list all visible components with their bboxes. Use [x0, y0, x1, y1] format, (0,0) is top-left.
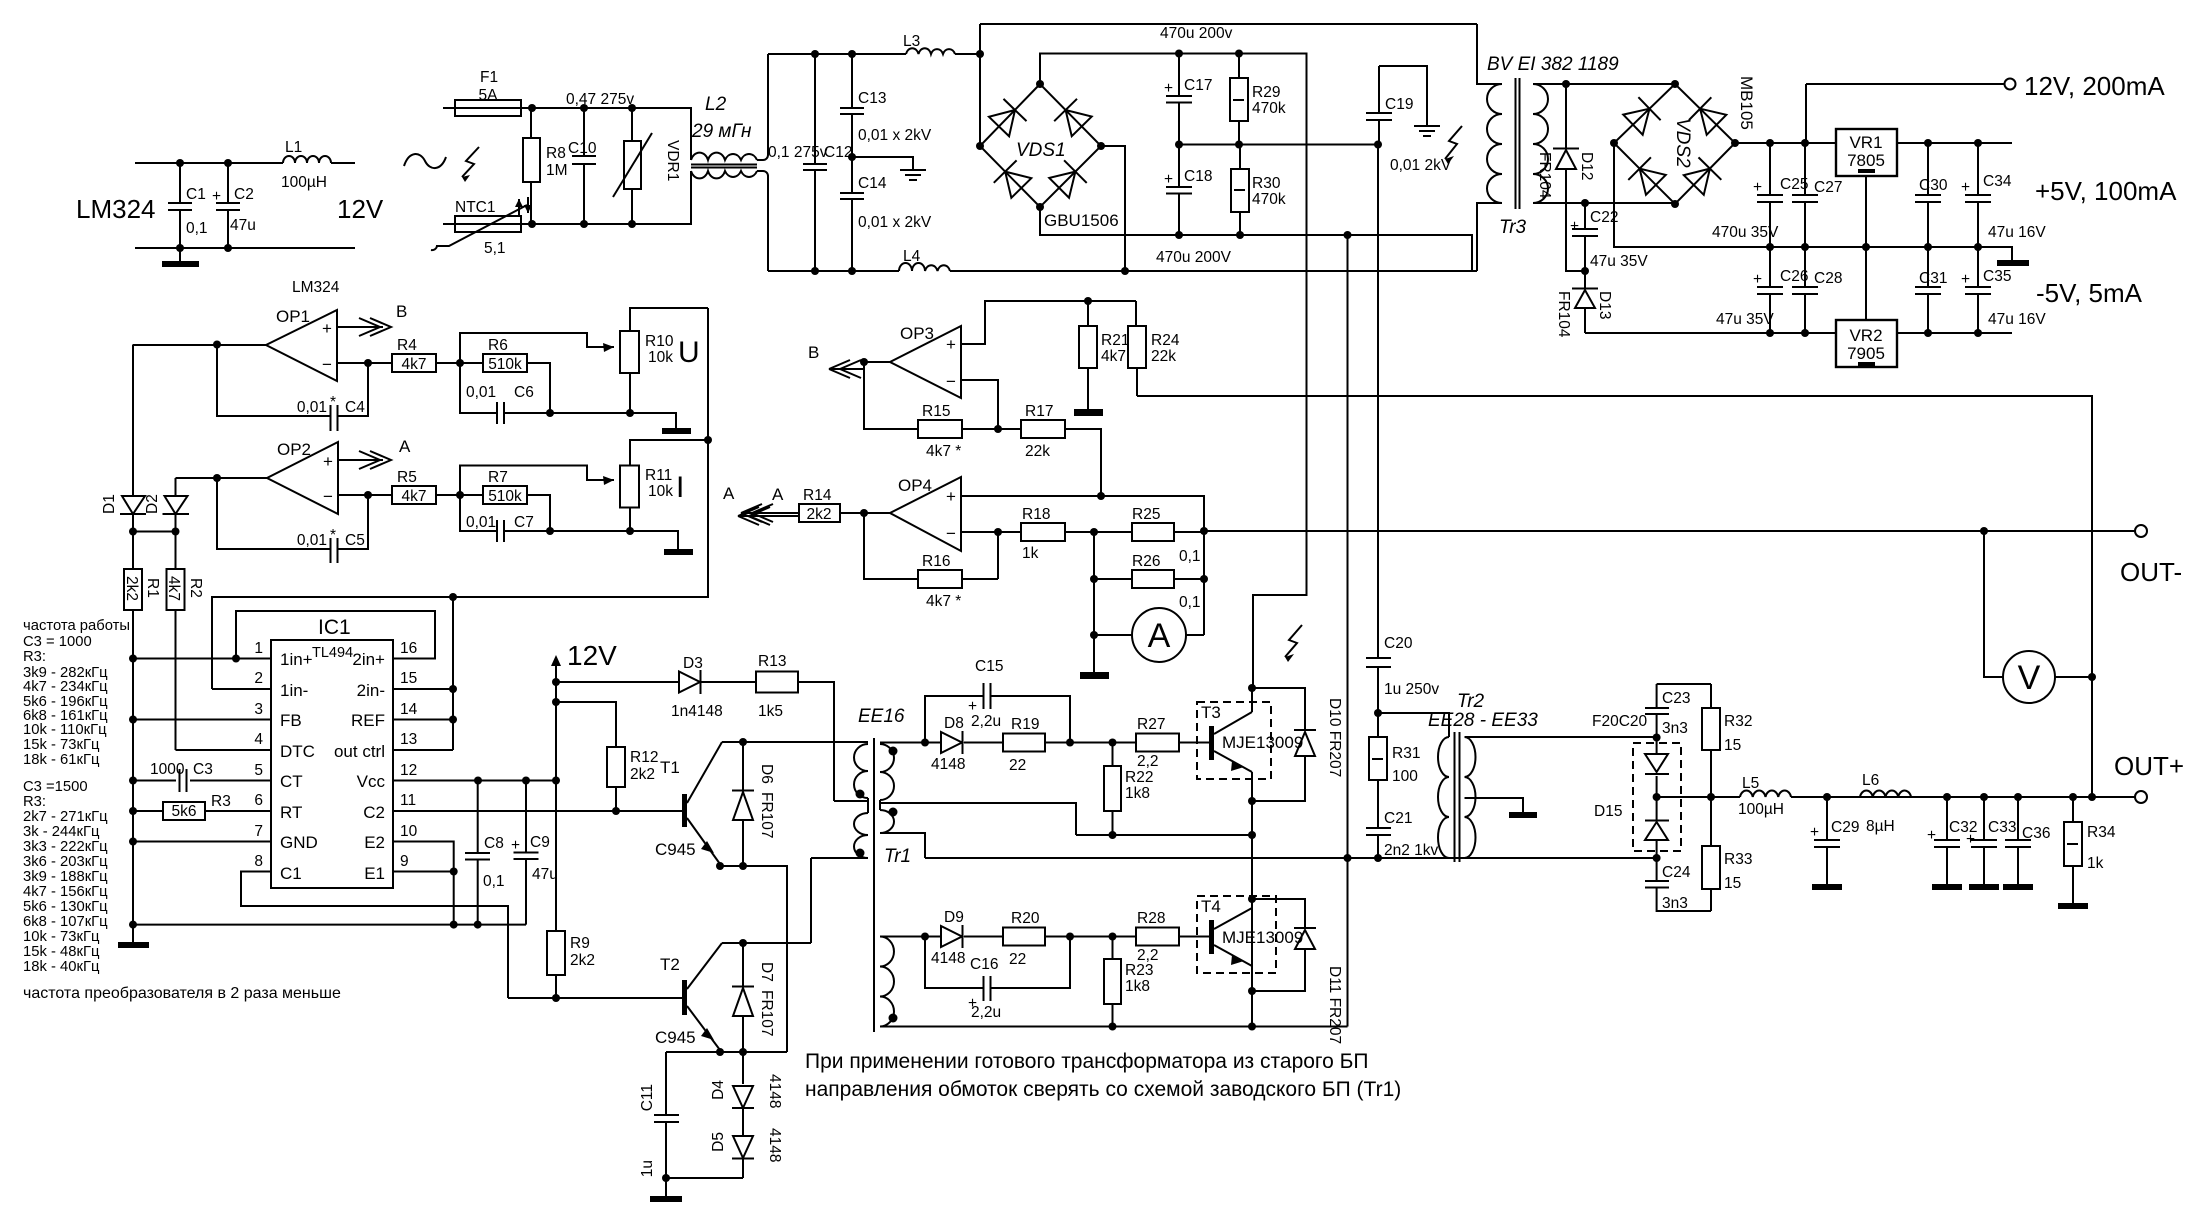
resistor R20 — [1003, 910, 1136, 968]
capacitor C14 — [840, 157, 932, 271]
wire OP3 +in — [961, 301, 1136, 344]
resistor R2 — [165, 532, 204, 751]
node — [811, 50, 819, 58]
svg-text:470u 200V: 470u 200V — [1156, 249, 1232, 266]
svg-text:C30: C30 — [1919, 177, 1948, 194]
wire pin3 FB — [133, 719, 271, 721]
wire OUT- rail — [1204, 530, 2135, 532]
svg-text:8µH: 8µH — [1866, 818, 1895, 835]
svg-text:100: 100 — [1392, 768, 1418, 785]
svg-text:T1: T1 — [660, 758, 680, 777]
svg-text:R21: R21 — [1101, 332, 1129, 349]
svg-text:C2: C2 — [363, 803, 385, 822]
svg-text:R3:: R3: — [23, 649, 46, 665]
svg-text:R19: R19 — [1011, 716, 1039, 733]
svg-text:C12: C12 — [824, 144, 852, 161]
capacitor C28 — [1792, 247, 1842, 333]
svg-text:C16: C16 — [970, 956, 998, 973]
svg-text:13: 13 — [400, 731, 417, 748]
wire E2 pin10 — [393, 842, 454, 925]
diode D10 — [1252, 688, 1343, 801]
svg-text:FR104: FR104 — [1536, 152, 1553, 199]
svg-text:+: + — [1164, 171, 1173, 188]
capacitor C22 — [1570, 203, 1648, 271]
svg-text:8: 8 — [254, 853, 263, 870]
voltmeter V — [1980, 527, 2092, 703]
wire T2 base row — [508, 997, 683, 999]
capacitor C17 — [1164, 54, 1212, 145]
capacitor C15 — [925, 658, 1070, 743]
svg-text:A: A — [399, 437, 411, 456]
svg-text:510k: 510k — [488, 488, 522, 505]
capacitor C20 — [1366, 635, 1439, 713]
svg-text:R31: R31 — [1392, 745, 1420, 762]
svg-text:+: + — [1961, 179, 1970, 196]
wire — [1377, 145, 1379, 659]
inductor L5 — [1738, 775, 1791, 818]
svg-text:14: 14 — [400, 701, 418, 718]
svg-text:LM324: LM324 — [292, 279, 340, 296]
svg-text:470k: 470k — [1252, 100, 1286, 117]
svg-text:+: + — [322, 319, 332, 338]
svg-text:FR104: FR104 — [1555, 291, 1572, 338]
svg-text:R6: R6 — [488, 337, 508, 354]
svg-text:47u 35V: 47u 35V — [1716, 311, 1774, 328]
capacitor C30 — [1915, 143, 1948, 247]
svg-text:4k7: 4k7 — [402, 488, 427, 505]
diode D4 — [710, 1052, 783, 1135]
transistor T4 — [1197, 896, 1303, 991]
svg-text:R9: R9 — [570, 935, 590, 952]
svg-text:−: − — [946, 372, 956, 391]
svg-text:18k - 40кГц: 18k - 40кГц — [23, 959, 100, 975]
wire bottom + ground — [550, 413, 676, 428]
svg-text:+: + — [946, 487, 956, 506]
svg-text:+: + — [212, 188, 221, 205]
svg-text:100µH: 100µH — [1738, 801, 1784, 818]
svg-text:22k: 22k — [1151, 348, 1176, 365]
svg-text:2in-: 2in- — [357, 681, 385, 700]
resistor R27 — [1136, 716, 1209, 770]
svg-text:R22: R22 — [1125, 769, 1153, 786]
svg-text:D11 FR207: D11 FR207 — [1326, 966, 1343, 1044]
resistor R15 — [918, 403, 1021, 460]
svg-text:Vcc: Vcc — [357, 772, 386, 791]
svg-text:GND: GND — [280, 833, 318, 852]
svg-text:−: − — [322, 355, 332, 374]
node — [176, 159, 184, 167]
capacitor C7 — [460, 495, 550, 542]
svg-text:−: − — [323, 487, 333, 506]
svg-text:R14: R14 — [803, 487, 832, 504]
svg-text:R10: R10 — [645, 333, 674, 350]
svg-text:C11: C11 — [639, 1084, 656, 1111]
wire output — [133, 344, 266, 346]
svg-text:47u 16V: 47u 16V — [1988, 311, 2046, 328]
thermistor NTC1 — [431, 199, 531, 257]
wire pin8 C1 loop — [241, 872, 508, 999]
svg-text:C34: C34 — [1983, 173, 2012, 190]
Tr1 left winding A — [854, 744, 868, 813]
svg-text:15: 15 — [1724, 737, 1741, 754]
Tr1 left winding B — [854, 813, 868, 858]
svg-text:*: * — [330, 394, 336, 411]
svg-text:L1: L1 — [285, 139, 302, 156]
svg-text:18k - 61кГц: 18k - 61кГц — [23, 752, 100, 768]
svg-text:4k7 *: 4k7 * — [926, 443, 961, 460]
resistor R18 — [1021, 506, 1132, 562]
potentiometer R11 — [620, 440, 708, 531]
svg-text:2k2: 2k2 — [807, 506, 832, 523]
svg-text:VDR1: VDR1 — [664, 140, 681, 181]
wire rail y271 — [768, 270, 1477, 272]
svg-text:12V: 12V — [337, 194, 384, 224]
svg-text:6: 6 — [254, 792, 263, 809]
svg-text:U: U — [678, 336, 700, 369]
svg-text:R27: R27 — [1137, 716, 1165, 733]
capacitor C33 — [1966, 797, 2016, 890]
diode D8 — [931, 715, 965, 773]
capacitor C36 — [2003, 797, 2050, 890]
capacitor C11 — [639, 1052, 679, 1178]
wire top rail y24 — [980, 24, 1477, 146]
svg-text:R17: R17 — [1025, 403, 1053, 420]
diode D7 — [732, 943, 775, 1052]
capacitor C34 — [1961, 143, 2046, 247]
12V arrow mid — [555, 659, 557, 682]
svg-text:12: 12 — [400, 762, 417, 779]
svg-text:4k7: 4k7 — [402, 356, 427, 373]
svg-text:470u 200v: 470u 200v — [1160, 25, 1233, 42]
svg-text:R4: R4 — [397, 337, 417, 354]
svg-text:C28: C28 — [1814, 270, 1842, 287]
transistor T3 — [1197, 688, 1303, 801]
svg-text:2,2u: 2,2u — [971, 713, 1001, 730]
svg-text:6k8 - 107кГц: 6k8 - 107кГц — [23, 914, 108, 930]
svg-text:TL494: TL494 — [312, 645, 353, 661]
svg-text:47u 35V: 47u 35V — [1590, 253, 1648, 270]
svg-text:0,1 275v: 0,1 275v — [768, 144, 828, 161]
svg-text:47u 16V: 47u 16V — [1988, 224, 2046, 241]
inductor L1 — [281, 139, 331, 191]
wire 12V bus — [555, 682, 557, 931]
svg-text:2,2u: 2,2u — [971, 1004, 1001, 1021]
wire aux rails — [1735, 142, 2012, 144]
resistor R17 — [1021, 403, 1101, 496]
svg-text:L6: L6 — [1862, 772, 1879, 789]
svg-text:9: 9 — [400, 853, 409, 870]
svg-text:1: 1 — [254, 640, 263, 657]
capacitor C9 — [511, 781, 558, 925]
svg-text:Tr3: Tr3 — [1499, 217, 1527, 238]
svg-text:R23: R23 — [1125, 962, 1153, 979]
svg-text:OUT+: OUT+ — [2114, 751, 2184, 781]
regulator VR2 7905 — [1836, 247, 1897, 367]
svg-text:VR1: VR1 — [1849, 133, 1882, 152]
wire secondary — [1533, 84, 1675, 204]
diode D6 — [732, 742, 775, 866]
svg-text:1k8: 1k8 — [1125, 978, 1150, 995]
svg-text:R26: R26 — [1132, 553, 1160, 570]
svg-text:L5: L5 — [1742, 775, 1759, 792]
svg-text:10k - 73кГц: 10k - 73кГц — [23, 929, 100, 945]
capacitor C2 — [212, 163, 256, 248]
svg-text:LM324: LM324 — [76, 194, 156, 224]
svg-text:C33: C33 — [1988, 819, 2016, 836]
capacitor C24 + resistor R33 loop — [1645, 858, 1711, 911]
svg-text:12V: 12V — [567, 640, 617, 671]
svg-text:4k7 *: 4k7 * — [926, 593, 961, 610]
capacitor C5 feedback — [217, 478, 368, 563]
svg-text:T3: T3 — [1201, 703, 1221, 722]
wire pot top I — [460, 466, 614, 496]
svg-text:4k7 - 234кГц: 4k7 - 234кГц — [23, 679, 108, 695]
svg-text:1in+: 1in+ — [280, 650, 313, 669]
svg-text:0,1: 0,1 — [186, 220, 208, 237]
svg-text:D10 FR207: D10 FR207 — [1326, 698, 1343, 777]
svg-text:3: 3 — [254, 701, 263, 718]
svg-text:2k2: 2k2 — [123, 576, 140, 601]
svg-text:OP4: OP4 — [898, 476, 932, 495]
terminal OUT- — [2135, 525, 2147, 537]
svg-text:3n3: 3n3 — [1662, 895, 1688, 912]
wire bridge outputs — [1040, 54, 1307, 689]
svg-text:R29: R29 — [1252, 84, 1280, 101]
svg-text:0,01 2kV: 0,01 2kV — [1390, 157, 1452, 174]
svg-text:частота работы: частота работы — [23, 618, 130, 634]
svg-text:1k: 1k — [1022, 545, 1039, 562]
wire — [135, 163, 355, 248]
svg-text:F20C20: F20C20 — [1592, 713, 1648, 730]
svg-text:C7: C7 — [514, 514, 534, 531]
svg-text:C3: C3 — [193, 761, 213, 778]
svg-text:NTC1: NTC1 — [455, 199, 495, 216]
svg-text:1k5: 1k5 — [758, 703, 783, 720]
svg-text:R33: R33 — [1724, 851, 1752, 868]
svg-text:1n4148: 1n4148 — [671, 703, 723, 720]
capacitor C6 — [460, 363, 550, 424]
wire T1 collector — [722, 741, 868, 743]
diode D11 — [1252, 899, 1343, 1044]
varistor VDR1 — [613, 108, 681, 224]
svg-text:GBU1506: GBU1506 — [1044, 211, 1119, 230]
wire rail y54 — [768, 53, 980, 55]
svg-text:BV EI 382 1189: BV EI 382 1189 — [1487, 54, 1619, 75]
svg-text:4k7 - 156кГц: 4k7 - 156кГц — [23, 884, 108, 900]
resistor R34 — [2058, 797, 2116, 909]
wire T2 emitter row — [666, 1051, 787, 1053]
svg-text:C4: C4 — [345, 399, 365, 416]
svg-text:D13: D13 — [1596, 291, 1613, 319]
transistor T1 — [655, 742, 722, 864]
svg-text:T2: T2 — [660, 955, 680, 974]
12V output — [1806, 84, 2004, 143]
capacitor C12 — [768, 54, 852, 271]
diode D1 — [101, 345, 146, 532]
svg-text:C23: C23 — [1662, 690, 1690, 707]
transformer Tr3 — [1487, 84, 1502, 203]
op-amp OP1 — [266, 307, 337, 381]
svg-text:EE16: EE16 — [858, 706, 905, 727]
diode — [988, 99, 1027, 138]
svg-text:5k6: 5k6 — [172, 803, 197, 820]
svg-text:D5: D5 — [710, 1132, 727, 1152]
svg-text:D15: D15 — [1594, 803, 1622, 820]
svg-text:C9: C9 — [530, 834, 550, 851]
Tr1 right winding sec2 — [880, 937, 894, 1027]
capacitor C16 — [925, 937, 1070, 1022]
svg-text:C35: C35 — [1983, 268, 2011, 285]
diode D12 — [1536, 84, 1595, 271]
resistor R8 — [523, 108, 568, 224]
svg-text:OP3: OP3 — [900, 324, 934, 343]
resistor R29 — [1230, 54, 1286, 145]
capacitor C18 — [1164, 145, 1212, 236]
svg-text:0,01 x 2kV: 0,01 x 2kV — [858, 214, 932, 231]
terminal OUT+ — [2135, 791, 2147, 803]
svg-text:R16: R16 — [922, 553, 950, 570]
lightning — [1445, 126, 1462, 159]
svg-text:−: − — [946, 524, 956, 543]
inductor L4 — [899, 248, 950, 271]
wire pins 15 14 13 bus — [393, 597, 453, 750]
resistor R12 — [556, 702, 658, 811]
svg-text:10: 10 — [400, 823, 418, 840]
resistor R1 — [123, 532, 161, 943]
svg-text:D7: D7 — [758, 962, 775, 982]
svg-text:R15: R15 — [922, 403, 950, 420]
wire midrail — [1179, 144, 1378, 146]
svg-text:*: * — [330, 527, 336, 544]
wire OP4 -in — [961, 531, 1021, 533]
ground — [852, 157, 926, 180]
svg-text:2k2: 2k2 — [630, 766, 655, 783]
svg-text:C3 = 1000: C3 = 1000 — [23, 634, 92, 650]
svg-text:C1: C1 — [280, 864, 302, 883]
wire center tap left — [834, 800, 868, 802]
svg-text:22: 22 — [1009, 951, 1026, 968]
resistor R16 — [864, 513, 998, 610]
svg-text:15k - 48кГц: 15k - 48кГц — [23, 944, 100, 960]
svg-text:5: 5 — [254, 762, 263, 779]
svg-text:-5V, 5mA: -5V, 5mA — [2036, 278, 2143, 308]
svg-text:R30: R30 — [1252, 175, 1281, 192]
svg-text:C2: C2 — [234, 186, 254, 203]
resistor R21 — [1079, 301, 1129, 409]
svg-text:R28: R28 — [1137, 910, 1165, 927]
capacitor C19 — [1366, 66, 1452, 174]
svg-text:DTC: DTC — [280, 742, 315, 761]
capacitor C27 — [1792, 143, 1842, 247]
wire R24 rail — [1137, 396, 2092, 797]
op-amp OP2 — [267, 440, 338, 514]
capacitor C32 — [1927, 797, 1977, 890]
svg-text:0,01 x 2kV: 0,01 x 2kV — [858, 127, 932, 144]
svg-text:C15: C15 — [975, 658, 1003, 675]
op-amp OP3 — [890, 324, 961, 398]
diode D13 — [1555, 271, 1613, 338]
svg-text:D9: D9 — [944, 909, 964, 926]
svg-text:R34: R34 — [2087, 824, 2116, 841]
svg-text:1000: 1000 — [150, 761, 185, 778]
svg-text:OP1: OP1 — [276, 307, 310, 326]
svg-text:FB: FB — [280, 711, 302, 730]
inductor L6 — [1860, 772, 1911, 835]
resistor R3 pin6 — [133, 793, 271, 820]
svg-text:4148: 4148 — [931, 950, 965, 967]
wire T2 collector — [722, 858, 811, 943]
svg-text:C13: C13 — [858, 90, 886, 107]
diode D9 — [931, 909, 965, 967]
regulator VR1 7805 — [1836, 129, 1897, 247]
resistor R28 — [1136, 910, 1209, 964]
svg-text:3n3: 3n3 — [1662, 720, 1688, 737]
svg-text:out ctrl: out ctrl — [334, 742, 385, 761]
wire — [531, 108, 691, 160]
svg-text:E1: E1 — [364, 864, 385, 883]
svg-text:+: + — [946, 335, 956, 354]
capacitor C8 — [465, 781, 505, 925]
wire output — [176, 477, 268, 479]
svg-text:+: + — [1570, 218, 1579, 235]
svg-text:D12: D12 — [1578, 152, 1595, 180]
svg-text:4148: 4148 — [766, 1074, 783, 1108]
node B out — [337, 326, 383, 328]
svg-text:V: V — [2018, 659, 2041, 697]
resistor R5 — [392, 469, 483, 505]
svg-text:I: I — [676, 471, 684, 504]
capacitor C26 — [1716, 247, 1808, 333]
svg-text:0,1: 0,1 — [483, 873, 505, 890]
resistor R22 — [1104, 743, 1153, 836]
svg-text:470k: 470k — [1252, 191, 1286, 208]
svg-text:4: 4 — [254, 731, 263, 748]
svg-text:D6: D6 — [758, 764, 775, 784]
AC symbol — [404, 154, 446, 168]
resistor R4 — [392, 337, 483, 373]
svg-text:0,1: 0,1 — [1179, 594, 1201, 611]
wire inverting — [337, 362, 392, 364]
lightning — [1285, 625, 1302, 657]
svg-text:R25: R25 — [1132, 506, 1160, 523]
transistor T2 — [655, 943, 722, 1050]
op-amp OP4 — [890, 476, 961, 551]
wire OP3 out to R15 — [864, 362, 918, 429]
svg-text:VDS1: VDS1 — [1016, 140, 1066, 161]
ground — [179, 248, 181, 261]
resistor R24 — [1128, 301, 1180, 396]
svg-text:D2: D2 — [144, 494, 161, 514]
svg-text:47u: 47u — [230, 217, 256, 234]
wire y1026 rail — [880, 1026, 1348, 1028]
diode D15 (dual) — [1594, 738, 1681, 859]
svg-text:0,01: 0,01 — [297, 399, 327, 416]
svg-text:3k6 - 203кГц: 3k6 - 203кГц — [23, 854, 108, 870]
svg-text:FR107: FR107 — [758, 792, 775, 839]
node A out — [338, 459, 383, 461]
svg-text:4148: 4148 — [766, 1128, 783, 1162]
svg-text:C21: C21 — [1384, 810, 1412, 827]
svg-text:+: + — [1753, 271, 1762, 288]
capacitor C23 + resistor R32 loop — [1645, 684, 1711, 738]
svg-text:C20: C20 — [1384, 635, 1413, 652]
svg-text:C14: C14 — [858, 175, 887, 192]
svg-text:MJE13009: MJE13009 — [1222, 733, 1303, 752]
svg-text:2k2: 2k2 — [570, 952, 595, 969]
svg-text:T4: T4 — [1201, 897, 1221, 916]
svg-text:12V, 200mA: 12V, 200mA — [2024, 71, 2165, 101]
svg-text:R7: R7 — [488, 469, 508, 486]
